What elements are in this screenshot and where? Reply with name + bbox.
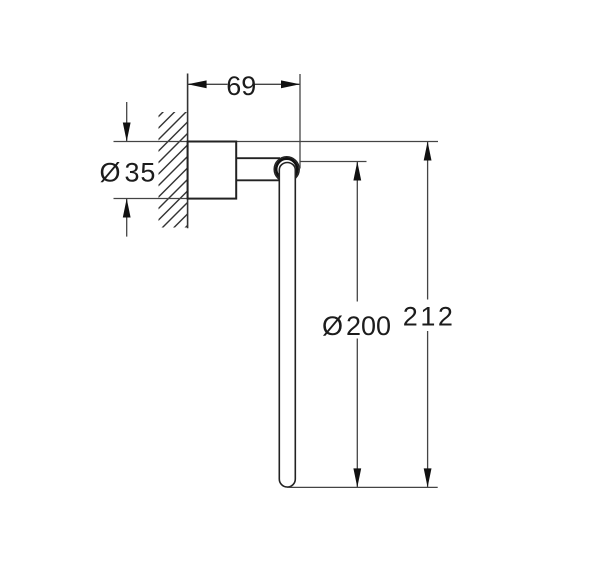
svg-text:Ø200: Ø200 [322,311,391,341]
dimension Ø200: line lower segment [356,339,358,488]
extension line: long horizontal at mount top (Ø35 top + 212 top) [114,141,439,143]
dimension 212: line upper segment [427,142,429,300]
stem top line [236,157,280,159]
towel ring (edge-on capsule) [279,163,295,488]
dimension 212: line lower segment [427,331,429,487]
wall hatching [147,76,199,289]
dimension Ø35: bottom line [126,199,128,237]
dimension 212: top arrow (up) [424,142,432,161]
dimension Ø200: bottom arrow (down) [353,468,361,487]
dimension Ø200: top extension line [300,161,367,163]
dimension Ø200: top arrow (up) [353,162,361,181]
dimension Ø35: top line [126,102,128,142]
bottom extension line [287,486,438,488]
dimension Ø35: top arrow (down) [123,123,131,142]
stem bottom line [236,179,280,181]
ring pivot inner thick circle [276,159,297,180]
dimension Ø200: line upper segment [356,162,358,302]
dimension 69: right extension line [299,74,301,169]
dimension Ø35: bottom arrow (up) [123,199,131,218]
svg-text:Ø35: Ø35 [100,158,157,188]
dimension 69: line left segment [188,83,228,85]
dimension 69: left arrow [188,80,207,88]
dimension 69: line right segment [255,83,301,85]
svg-text:69: 69 [226,71,256,101]
dimension 212: bottom arrow (down) [424,468,432,487]
mount body (wall flange) [188,142,237,199]
svg-text:212: 212 [403,302,456,332]
wall face line (also left extension line of 69 dim) [187,74,189,229]
dimension 69: right arrow [281,80,300,88]
extension line: Ø35 bottom [114,198,237,200]
ring pivot outer circle [274,157,299,182]
